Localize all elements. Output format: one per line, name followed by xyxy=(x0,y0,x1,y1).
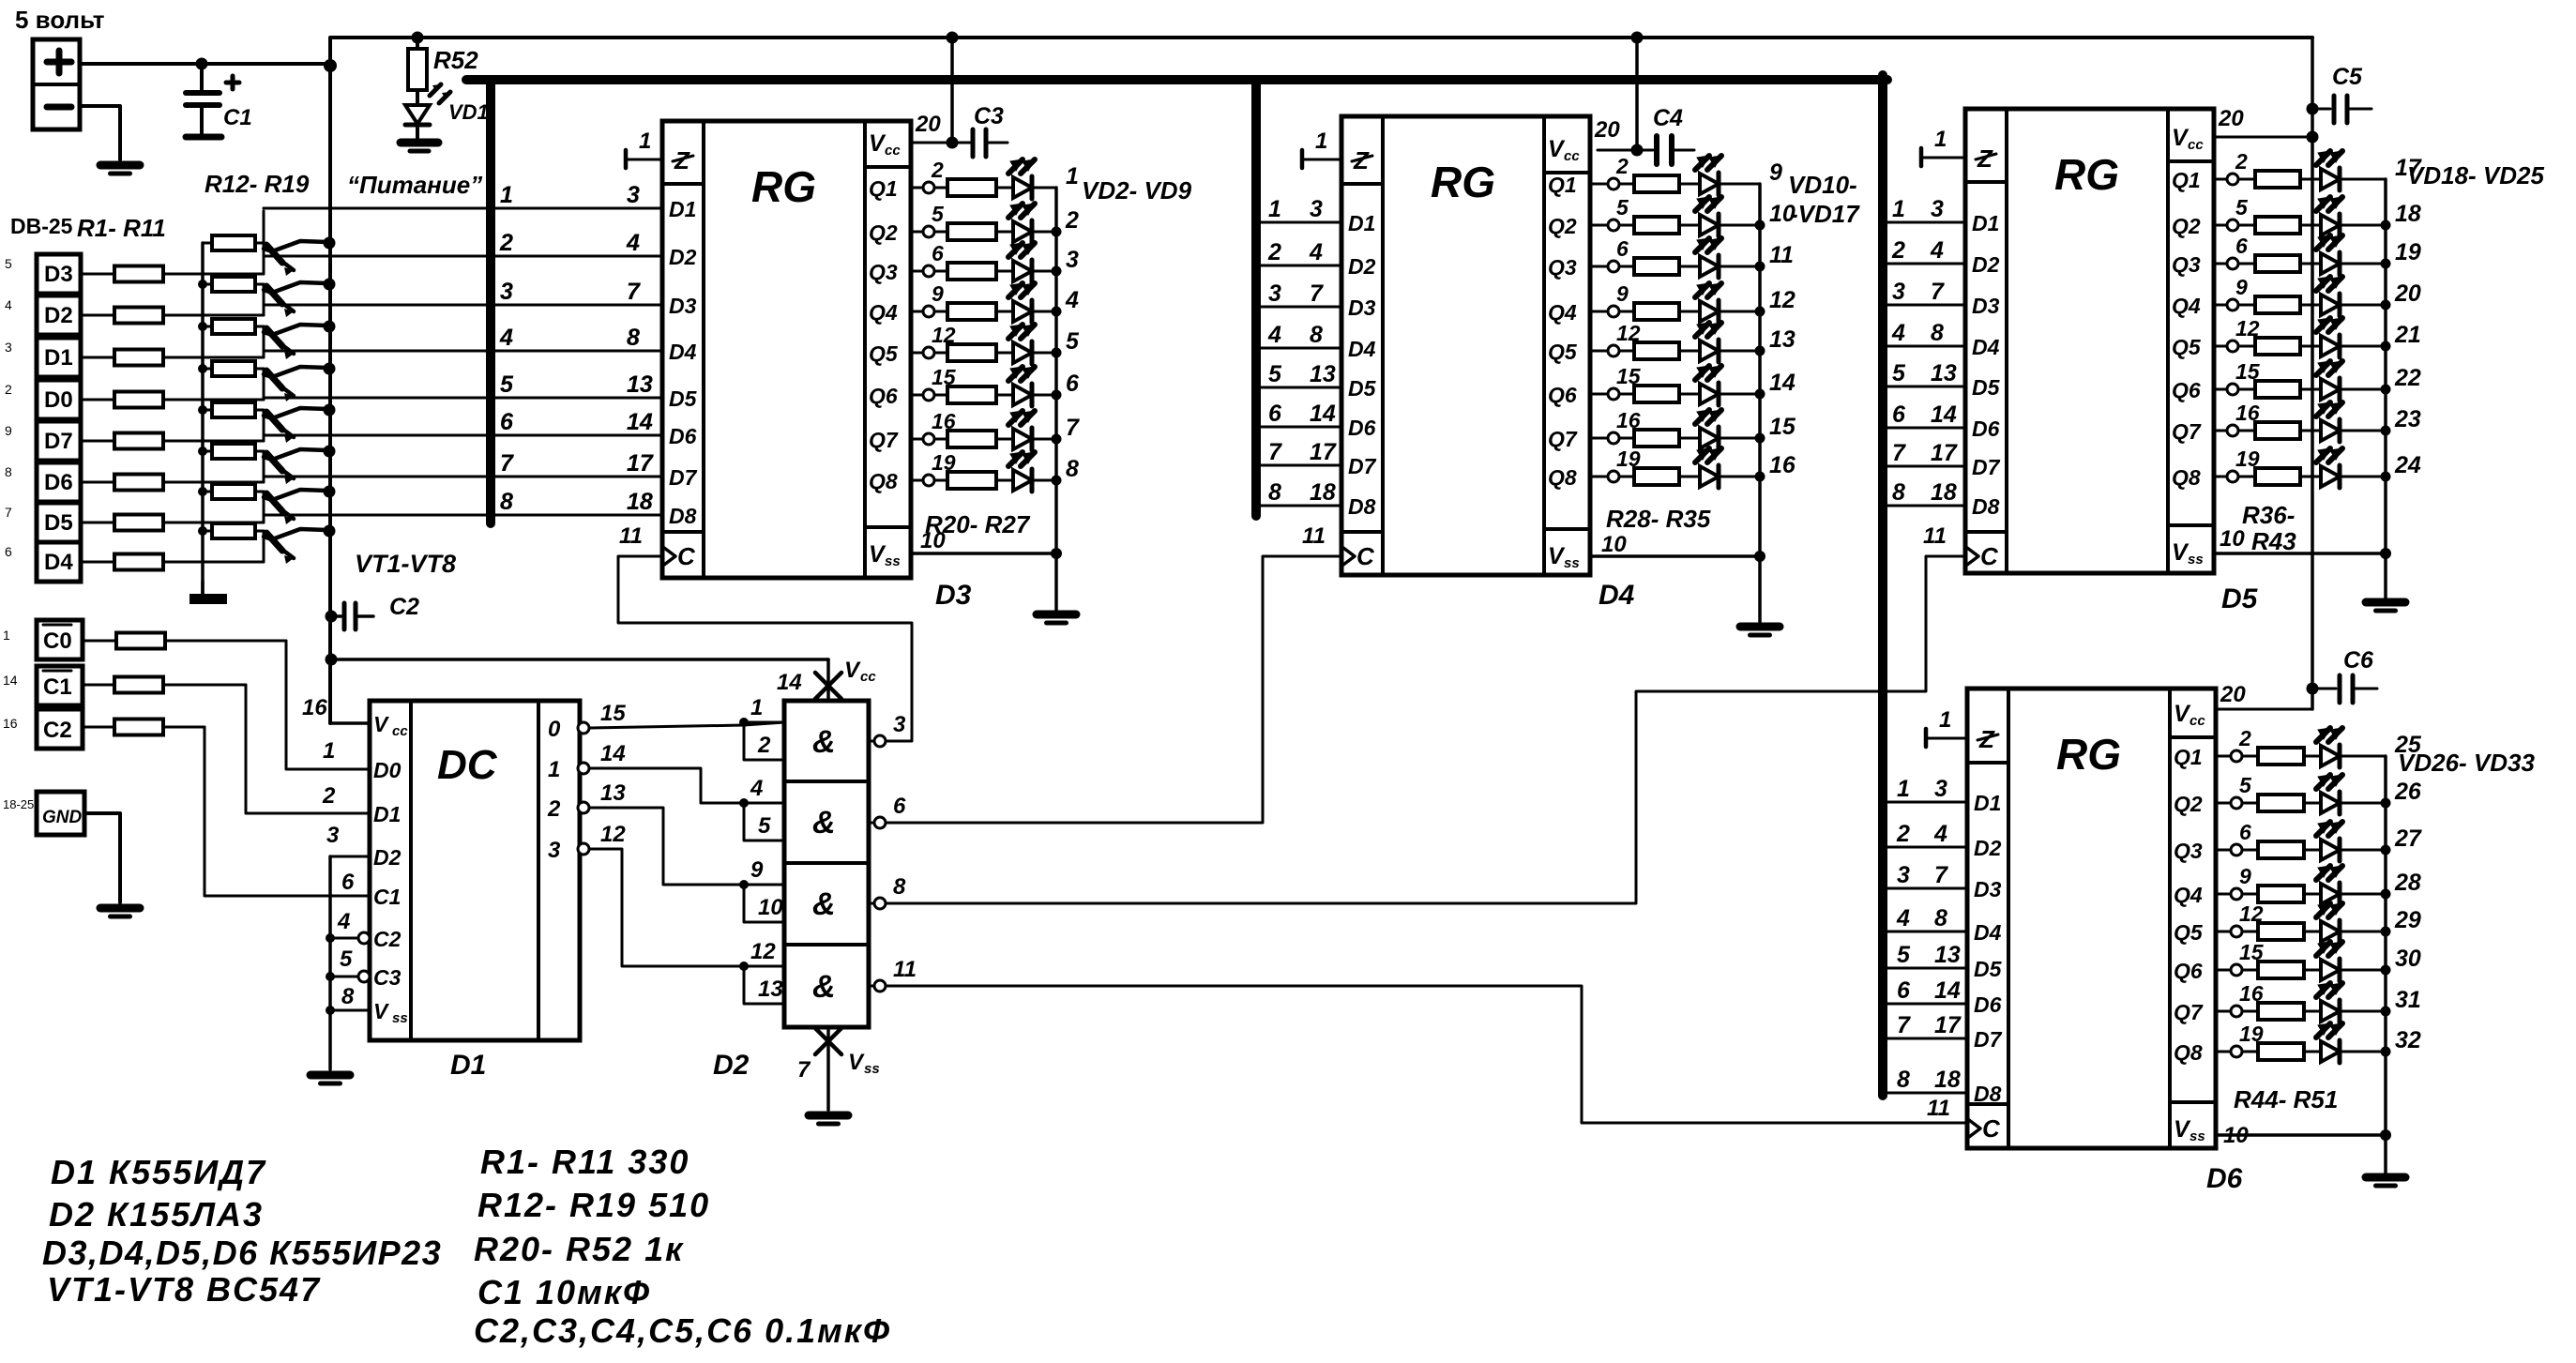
svg-text:16: 16 xyxy=(302,695,327,720)
svg-text:VD10-: VD10- xyxy=(1788,171,1857,199)
LED VD25 row 1 xyxy=(2321,746,2340,766)
resistor R32 xyxy=(1619,350,1634,353)
svg-text:32: 32 xyxy=(2395,1027,2421,1053)
pin D3 of D3 xyxy=(264,304,662,307)
svg-text:7: 7 xyxy=(1931,279,1945,305)
svg-text:C2,C3,C4,C5,C6 0.1мкФ: C2,C3,C4,C5,C6 0.1мкФ xyxy=(474,1311,891,1350)
svg-text:11: 11 xyxy=(1923,523,1947,549)
svg-text:3: 3 xyxy=(1310,196,1323,222)
resistor R15 xyxy=(203,368,212,371)
svg-text:&: & xyxy=(812,969,836,1005)
svg-text:D2: D2 xyxy=(1974,836,2002,860)
transistor VT5 xyxy=(266,412,282,430)
svg-text:Q2: Q2 xyxy=(2174,792,2203,816)
pin D8 of D5 xyxy=(1883,505,1965,507)
resistor R26 xyxy=(934,438,947,441)
svg-text:D2: D2 xyxy=(373,845,402,870)
svg-text:ss: ss xyxy=(885,553,901,569)
svg-text:1: 1 xyxy=(323,738,335,764)
LED VD5 row 5 xyxy=(1013,342,1032,363)
svg-text:8: 8 xyxy=(1066,456,1079,482)
svg-text:1: 1 xyxy=(1268,196,1281,222)
resistor R8 xyxy=(81,561,114,564)
resistor R49 xyxy=(2242,969,2258,972)
svg-text:D0: D0 xyxy=(44,387,73,413)
svg-text:D8: D8 xyxy=(1974,1082,2002,1106)
svg-text:3: 3 xyxy=(500,279,513,305)
connector pin D5 (DB-25 pin 7) xyxy=(37,503,81,542)
svg-text:D6: D6 xyxy=(669,424,697,448)
svg-text:6: 6 xyxy=(1892,401,1906,428)
svg-text:17: 17 xyxy=(1934,1012,1962,1038)
svg-text:C6: C6 xyxy=(2343,647,2374,674)
svg-text:8: 8 xyxy=(1268,479,1281,506)
node cathode junction xyxy=(1755,262,1765,272)
svg-text:14: 14 xyxy=(1769,370,1796,396)
gate 1 input pins 1,2 xyxy=(739,718,749,727)
svg-text:7: 7 xyxy=(1892,440,1906,466)
resistor R14 xyxy=(203,326,212,328)
svg-text:C: C xyxy=(677,542,696,570)
svg-text:ss: ss xyxy=(2188,552,2204,568)
bus thick vertical 1 xyxy=(486,80,495,523)
svg-text:3: 3 xyxy=(1066,247,1079,273)
svg-text:ss: ss xyxy=(1564,555,1580,571)
svg-text:5 вольт: 5 вольт xyxy=(15,6,105,34)
svg-text:R1- R11 330: R1- R11 330 xyxy=(480,1143,689,1181)
pin D1 of D3 xyxy=(264,207,662,210)
pin D1 of D4 xyxy=(1256,221,1341,224)
svg-text:2: 2 xyxy=(322,783,336,809)
wire D1 out0 to gate1 xyxy=(589,725,744,728)
svg-text:3: 3 xyxy=(1934,776,1947,802)
svg-text:Q7: Q7 xyxy=(869,428,899,452)
pin D6 of D4 xyxy=(1256,426,1341,429)
IC D4 register body xyxy=(1341,116,1590,575)
svg-text:&: & xyxy=(812,805,836,841)
svg-text:7: 7 xyxy=(797,1057,811,1083)
LED VD1 xyxy=(405,105,430,124)
capacitor C4 with riser from +5 rail xyxy=(1631,32,1644,44)
transistor VT1 xyxy=(266,245,282,263)
svg-text:14: 14 xyxy=(627,409,653,435)
svg-text:4: 4 xyxy=(626,230,640,256)
pin D4 of D6 xyxy=(1883,931,1967,933)
node cathode junction xyxy=(2381,1047,2391,1057)
bus thick horizontal xyxy=(466,75,1887,84)
wire base node VT1 xyxy=(263,211,265,274)
svg-text:Q5: Q5 xyxy=(2172,335,2202,359)
svg-text:3: 3 xyxy=(1931,196,1944,222)
svg-text:6: 6 xyxy=(1066,371,1080,397)
pin D7 of D4 xyxy=(1256,464,1341,467)
svg-text:Q7: Q7 xyxy=(2172,419,2202,444)
svg-text:8: 8 xyxy=(500,489,513,515)
resistor R29 xyxy=(1619,224,1634,227)
svg-text:17: 17 xyxy=(1931,440,1958,466)
LED VD14 row 6 xyxy=(1700,384,1719,404)
LED VD19 row 3 xyxy=(2321,253,2340,274)
node cathode junction xyxy=(2381,1007,2391,1017)
gate 4 output pin 11 xyxy=(869,985,874,988)
svg-text:C1: C1 xyxy=(223,105,252,130)
pin Vcc of D2 (pin 14) with X xyxy=(326,654,338,666)
LED VD11 row 3 xyxy=(1700,256,1719,277)
svg-text:8: 8 xyxy=(1310,322,1323,348)
svg-text:RG: RG xyxy=(2056,730,2121,779)
capacitor C2 xyxy=(326,611,338,623)
wire data bit 2 line to registers xyxy=(264,255,662,258)
node cathode junction xyxy=(2381,798,2391,809)
svg-text:6: 6 xyxy=(500,409,514,435)
wire data bit 1 line to registers xyxy=(264,207,662,210)
wire Vss stub of D1 xyxy=(326,1006,335,1015)
svg-text:20: 20 xyxy=(2218,106,2244,131)
svg-text:4: 4 xyxy=(1930,237,1944,264)
LED VD8 row 8 xyxy=(1013,470,1032,491)
svg-text:Q6: Q6 xyxy=(869,384,898,408)
node cathode junction xyxy=(1755,220,1765,231)
svg-text:20: 20 xyxy=(1594,117,1620,143)
svg-text:7: 7 xyxy=(1934,862,1948,888)
resistor R42 xyxy=(2238,430,2255,432)
svg-text:Q6: Q6 xyxy=(2172,378,2201,402)
resistor R37 xyxy=(2238,224,2255,227)
svg-text:1: 1 xyxy=(500,182,513,208)
gate 2 input pins 4,5 xyxy=(739,798,749,808)
connector pin D4 (DB-25 pin 6) xyxy=(37,542,81,582)
bus thick vertical 3 xyxy=(1878,75,1887,1096)
svg-text:Q1: Q1 xyxy=(869,176,898,201)
pin D6 of D5 xyxy=(1883,427,1965,430)
ground below D5 LEDs xyxy=(2366,598,2405,607)
resistor R3 xyxy=(81,356,114,359)
wire C1 line to D1.D1 xyxy=(83,684,114,687)
svg-text:R12- R19 510: R12- R19 510 xyxy=(477,1186,710,1224)
LED VD30 row 6 xyxy=(2321,960,2340,980)
wire base node VT4 xyxy=(263,369,265,400)
svg-text:2: 2 xyxy=(2238,726,2251,750)
svg-text:1: 1 xyxy=(3,628,10,643)
wire R12-R19 ground rail xyxy=(201,243,205,594)
transistor VT3 xyxy=(266,328,282,346)
ground below D1 xyxy=(311,1071,350,1080)
svg-text:R52: R52 xyxy=(433,46,478,74)
IC D1 decoder DC body xyxy=(370,701,580,1040)
svg-text:VT1-VT8 BC547: VT1-VT8 BC547 xyxy=(47,1270,321,1309)
svg-text:D4: D4 xyxy=(1599,580,1635,611)
ground below D6 LEDs xyxy=(2366,1174,2405,1182)
wire gate3 output to D5.C xyxy=(886,556,1963,903)
resistor R46 xyxy=(2242,849,2258,852)
svg-text:C0: C0 xyxy=(43,628,72,654)
svg-text:10: 10 xyxy=(2220,526,2245,552)
svg-text:4: 4 xyxy=(1896,905,1910,931)
svg-text:D3: D3 xyxy=(669,294,697,318)
svg-text:1: 1 xyxy=(639,129,651,154)
svg-text:6: 6 xyxy=(5,544,12,559)
svg-text:Q1: Q1 xyxy=(1548,173,1577,197)
LED VD16 row 8 xyxy=(1700,466,1719,487)
svg-text:cc: cc xyxy=(2188,137,2204,153)
svg-text:D6: D6 xyxy=(2206,1163,2243,1194)
svg-text:1: 1 xyxy=(1934,127,1947,152)
pin D3 of D6 xyxy=(1883,887,1967,890)
svg-text:20: 20 xyxy=(2220,682,2246,707)
pin C clock of D3 (pin 11) xyxy=(664,548,675,565)
svg-text:4: 4 xyxy=(1065,287,1079,313)
svg-text:1: 1 xyxy=(1315,129,1327,154)
svg-text:11: 11 xyxy=(1769,242,1794,268)
svg-text:Q4: Q4 xyxy=(2172,294,2201,318)
svg-text:1: 1 xyxy=(750,695,763,720)
svg-text:Q7: Q7 xyxy=(1548,427,1578,451)
svg-text:2: 2 xyxy=(547,796,561,822)
svg-text:14: 14 xyxy=(777,670,802,695)
gate 3 output pin 8 xyxy=(869,902,874,905)
node +5V junction xyxy=(324,59,337,72)
svg-text:Q5: Q5 xyxy=(869,341,899,366)
resistor R5 xyxy=(81,440,114,443)
pin D8 of D3 xyxy=(264,514,662,517)
svg-text:19: 19 xyxy=(2395,239,2421,265)
svg-text:D1: D1 xyxy=(669,197,696,221)
svg-text:29: 29 xyxy=(2394,907,2421,933)
resistor R40 xyxy=(2238,345,2255,348)
svg-text:2: 2 xyxy=(1891,237,1905,264)
gate 3 input pins 9,10 xyxy=(739,880,749,889)
LED VD26 row 2 xyxy=(2321,793,2340,813)
svg-text:8: 8 xyxy=(627,325,640,351)
svg-text:D1: D1 xyxy=(44,345,73,371)
IC D3 register body xyxy=(662,121,911,578)
resistor R16 xyxy=(203,409,212,412)
resistor R25 xyxy=(934,394,947,397)
svg-text:12: 12 xyxy=(1769,287,1796,313)
svg-text:2: 2 xyxy=(757,733,771,758)
LED VD24 row 8 xyxy=(2321,466,2340,487)
svg-text:11: 11 xyxy=(619,523,643,549)
wire Vss of D6 to ground rail xyxy=(2216,1133,2386,1137)
svg-text:4: 4 xyxy=(499,325,513,351)
svg-text:Q3: Q3 xyxy=(2172,252,2201,277)
resistor R12 xyxy=(203,242,212,245)
svg-text:VD26- VD33: VD26- VD33 xyxy=(2398,749,2535,777)
connector X1 power terminals xyxy=(33,39,80,129)
connector pin GND (DB-25 pins 18-25) xyxy=(37,792,84,835)
svg-text:6: 6 xyxy=(2235,234,2248,258)
svg-text:Q8: Q8 xyxy=(1548,465,1577,490)
pin C2 of D1 bubble xyxy=(326,933,335,943)
svg-text:DB-25: DB-25 xyxy=(10,214,73,238)
svg-text:13: 13 xyxy=(1934,942,1961,968)
svg-text:D1: D1 xyxy=(1348,211,1375,235)
wire base node VT2 xyxy=(263,284,265,315)
svg-text:D5: D5 xyxy=(2221,583,2259,614)
svg-text:D3: D3 xyxy=(935,580,972,611)
svg-text:11: 11 xyxy=(1302,523,1326,549)
svg-text:Q4: Q4 xyxy=(2174,883,2203,907)
IC D5 register body xyxy=(1965,109,2214,573)
svg-text:R36-: R36- xyxy=(2242,501,2295,529)
svg-text:C2: C2 xyxy=(43,718,72,743)
svg-text:D2: D2 xyxy=(44,303,73,328)
svg-text:D8: D8 xyxy=(1348,494,1376,519)
svg-text:Q7: Q7 xyxy=(2174,1000,2204,1024)
svg-text:13: 13 xyxy=(1931,360,1957,386)
node cathode junction xyxy=(1052,266,1062,277)
wire LED cathode rail of D3 xyxy=(1054,188,1058,553)
pin D5 of D3 xyxy=(264,397,662,400)
svg-text:VD18- VD25: VD18- VD25 xyxy=(2407,161,2544,189)
svg-text:VD1: VD1 xyxy=(448,100,489,124)
svg-text:D7: D7 xyxy=(1348,454,1377,478)
wire D1 out2 to gate3 xyxy=(589,808,784,885)
svg-text:4: 4 xyxy=(337,909,350,934)
svg-text:D4: D4 xyxy=(669,340,697,364)
svg-text:1: 1 xyxy=(1892,196,1905,222)
capacitor C5 xyxy=(2307,103,2319,115)
svg-text:Q6: Q6 xyxy=(1548,383,1577,407)
svg-text:C1: C1 xyxy=(373,885,401,909)
resistor R41 xyxy=(2238,388,2255,391)
svg-text:14: 14 xyxy=(1931,401,1957,428)
resistor R36 xyxy=(2238,178,2255,181)
svg-text:4: 4 xyxy=(1891,320,1905,346)
svg-text:5: 5 xyxy=(1066,328,1080,355)
svg-text:17: 17 xyxy=(627,450,654,477)
svg-text:D6: D6 xyxy=(1972,416,2000,441)
resistor R34 xyxy=(1619,437,1634,440)
svg-text:RG: RG xyxy=(1431,158,1495,206)
resistor R38 xyxy=(2238,263,2255,265)
svg-text:9: 9 xyxy=(2239,864,2251,888)
svg-text:3: 3 xyxy=(5,340,12,355)
svg-text:24: 24 xyxy=(2394,452,2421,478)
svg-text:4: 4 xyxy=(1309,239,1323,265)
svg-text:C4: C4 xyxy=(1653,105,1683,131)
resistor R23 xyxy=(934,310,947,313)
resistor R18 xyxy=(203,491,212,493)
svg-text:D7: D7 xyxy=(1972,455,2001,479)
svg-text:“Питание”: “Питание” xyxy=(347,171,482,199)
svg-text:ss: ss xyxy=(864,1061,880,1077)
ground VD1 xyxy=(401,139,438,147)
svg-text:5: 5 xyxy=(1268,361,1282,387)
svg-text:3: 3 xyxy=(1897,862,1910,888)
resistor R11 xyxy=(114,719,163,735)
svg-text:&: & xyxy=(812,724,836,760)
svg-text:6: 6 xyxy=(1268,401,1282,427)
wire top rail +5V xyxy=(330,38,2312,66)
svg-text:14: 14 xyxy=(3,673,18,688)
svg-text:Q2: Q2 xyxy=(1548,214,1577,238)
wire C2 line to D1.C1 xyxy=(83,726,114,729)
svg-text:6: 6 xyxy=(1616,236,1629,261)
svg-text:-VD17: -VD17 xyxy=(1790,200,1860,228)
svg-text:8: 8 xyxy=(1934,905,1947,931)
transistor VT7 xyxy=(266,493,282,511)
LED VD13 row 5 xyxy=(1700,341,1719,361)
svg-text:14: 14 xyxy=(600,741,626,766)
svg-text:1: 1 xyxy=(1939,707,1951,733)
svg-text:RG: RG xyxy=(2054,150,2119,199)
transistor VT8 xyxy=(266,533,282,551)
svg-text:28: 28 xyxy=(2394,870,2421,896)
node cathode junction xyxy=(2381,845,2391,856)
resistor R30 xyxy=(1619,265,1634,268)
svg-text:7: 7 xyxy=(1310,280,1324,307)
wire gate2 output to D4.C xyxy=(886,556,1340,823)
wire -5V to ground xyxy=(80,106,120,159)
LED VD2 row 2 xyxy=(1013,221,1032,242)
svg-text:3: 3 xyxy=(548,838,561,863)
resistor R17 xyxy=(203,450,212,453)
wire Vss of D5 to ground rail xyxy=(2214,552,2386,555)
resistor R19 xyxy=(203,530,212,533)
pin D1 of D6 xyxy=(1883,801,1967,804)
pin Vss of D2 (pin 7) with X xyxy=(826,1027,830,1110)
resistor R4 xyxy=(81,399,114,401)
transistor VT4 xyxy=(266,371,282,388)
svg-text:8: 8 xyxy=(893,874,906,900)
svg-text:D5: D5 xyxy=(1348,376,1377,401)
svg-text:31: 31 xyxy=(2395,987,2421,1013)
svg-text:ss: ss xyxy=(2190,1128,2205,1144)
svg-text:R20- R27: R20- R27 xyxy=(925,510,1031,538)
wire D6 Vcc to riser xyxy=(2219,708,2312,711)
svg-text:5: 5 xyxy=(5,256,12,271)
LED VD22 row 6 xyxy=(2321,379,2340,400)
IC D6 register body xyxy=(1967,689,2216,1148)
svg-text:Q3: Q3 xyxy=(1548,255,1577,280)
svg-text:cc: cc xyxy=(885,143,901,159)
LED VD9 row 1 xyxy=(1700,174,1719,194)
wire Vss of D4 to ground rail xyxy=(1590,554,1760,558)
node cathode junction xyxy=(1052,227,1062,237)
resistor R45 xyxy=(2242,802,2258,805)
svg-text:8: 8 xyxy=(1892,479,1905,506)
svg-text:22: 22 xyxy=(2394,365,2421,391)
svg-text:C: C xyxy=(1982,1114,2001,1143)
svg-text:7: 7 xyxy=(627,279,641,305)
svg-text:6: 6 xyxy=(2239,820,2251,844)
LED VD1 row 1 xyxy=(1013,177,1032,198)
wire gate1 output to D3.C xyxy=(618,556,912,741)
svg-text:D4: D4 xyxy=(1348,337,1376,361)
svg-text:23: 23 xyxy=(2394,406,2421,432)
svg-text:D4: D4 xyxy=(44,550,73,575)
svg-text:4: 4 xyxy=(1267,322,1281,348)
node cathode junction xyxy=(2381,889,2391,900)
svg-text:13: 13 xyxy=(600,780,626,806)
svg-text:9: 9 xyxy=(2235,275,2248,299)
node cathode junction xyxy=(2381,341,2391,352)
pin C clock of D5 (pin 11) xyxy=(1967,548,1978,565)
connector pin D2 (DB-25 pin 4) xyxy=(37,295,81,335)
ground R12-R19 rail xyxy=(189,594,227,604)
wire data bit 3 line to registers xyxy=(264,304,662,307)
svg-text:R28- R35: R28- R35 xyxy=(1606,505,1711,533)
svg-text:5: 5 xyxy=(758,813,771,839)
pin D7 of D3 xyxy=(264,476,662,478)
svg-text:12: 12 xyxy=(750,939,776,964)
svg-text:3: 3 xyxy=(893,712,906,737)
svg-text:18: 18 xyxy=(2395,201,2421,227)
wire data bit 5 line to registers xyxy=(264,397,662,400)
svg-text:9: 9 xyxy=(932,281,944,306)
svg-text:5: 5 xyxy=(1892,360,1906,386)
